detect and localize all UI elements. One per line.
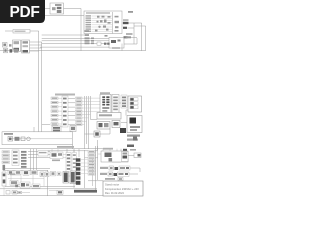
svg-text:PDF: PDF xyxy=(10,4,40,21)
svg-text:Komponenten 230VAC + 24V: Komponenten 230VAC + 24V xyxy=(105,187,139,191)
svg-text:Stand motor: Stand motor xyxy=(105,183,119,187)
svg-text:Rev. 01.02.2024: Rev. 01.02.2024 xyxy=(105,191,124,195)
